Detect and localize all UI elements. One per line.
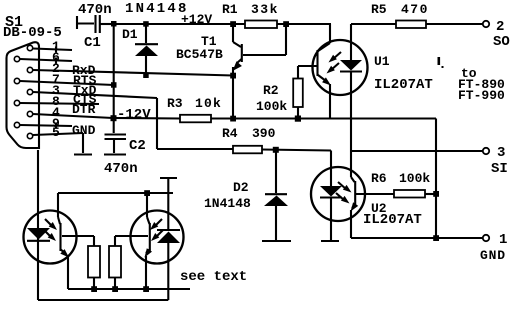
svg-text:IL207AT: IL207AT (363, 212, 422, 228)
junction inset resistor 2 / inner wire (112, 286, 118, 292)
pin 1 tick (55, 47, 57, 53)
svg-text:C1: C1 (84, 35, 101, 51)
junction at C1 / +12V rail (111, 21, 117, 27)
svg-text:IL207AT: IL207AT (374, 77, 433, 93)
wire GND drop to ground (82, 133, 84, 153)
U1 LED light arrows (327, 52, 342, 74)
transistor T1 (233, 24, 242, 76)
junction inset rail / right opto collector (144, 190, 150, 196)
resistor R6 body (394, 190, 425, 198)
inset right opto light arrows (150, 219, 163, 241)
pin 6 wire (20, 59, 72, 61)
optocoupler U1 circle (313, 40, 368, 95)
ground symbol at D2 (262, 240, 291, 242)
inset inner bottom wire (68, 288, 190, 290)
inset left opto LED on vertical wire (27, 228, 50, 241)
terminal 2 circle (483, 21, 489, 27)
wire SI line from U1 LED cathode to terminal 3 (351, 150, 483, 152)
resistor R2 body and leads (293, 66, 303, 119)
wire RxD node down to R3 line (232, 76, 234, 119)
junction T1 collector / rail (230, 21, 236, 27)
junction D1 / RxD (143, 73, 149, 79)
junction T1 emitter / RxD (230, 73, 236, 79)
junction R3 line / T1 vertical (230, 116, 236, 122)
ground symbol at pin 5 (74, 153, 92, 155)
inset left opto phototransistor (58, 193, 69, 289)
pin 9 wire (20, 125, 72, 126)
inset right opto phototransistor (145, 193, 153, 289)
svg-text:R4: R4 (222, 126, 238, 141)
wire +12V rail from C1 node to R1 (114, 23, 245, 25)
junction R6 right / bus (433, 191, 439, 197)
wire GND from pin 5 (33, 133, 83, 135)
inset T-bar terminal (160, 178, 177, 229)
svg-text:3: 3 (497, 145, 505, 161)
wire emitter bus corner down to R6 and GND (435, 119, 437, 239)
U1 phototransistor (318, 43, 332, 118)
svg-text:+12V: +12V (181, 12, 212, 27)
svg-text:100k: 100k (256, 99, 287, 114)
inset left opto base wire to resistor (62, 236, 94, 246)
svg-text:R6: R6 (371, 171, 387, 186)
svg-text:SO: SO (493, 34, 510, 50)
pin 6 tick (55, 58, 57, 64)
U2 LED light arrows (336, 182, 352, 204)
wire CTS from pin 8 (20, 103, 99, 104)
svg-text:390: 390 (252, 126, 276, 141)
U2 LED (anode from R4 line, cathode to ground) (320, 151, 342, 241)
junction inset resistor 1 / inner wire (91, 286, 97, 292)
pin 7 circle (14, 78, 19, 83)
svg-text:FT-990: FT-990 (458, 88, 505, 103)
U2 phototransistor (collector up to SI line, emitter to GND line) (351, 177, 359, 238)
svg-text:DTR: DTR (72, 102, 96, 117)
wire R6 to bus (425, 193, 436, 195)
junction R1 right / T1 base feed (283, 21, 289, 27)
capacitor C1 (77, 15, 114, 33)
pin 8 circle (14, 100, 19, 105)
pin 9 tick (55, 123, 57, 129)
ground symbol at U2 LED (321, 240, 339, 242)
inset resistor 2 body (109, 246, 121, 278)
inset outer bottom wire (38, 299, 168, 301)
wire TxD horizontal from pin 3 (33, 92, 157, 98)
pin 6 circle (14, 56, 19, 61)
wire TxD to R4 (157, 148, 233, 150)
inset left optocoupler circle (24, 211, 77, 264)
inset right opto LED (cathode up to T-bar) (157, 230, 180, 300)
pin 1 wire (33, 49, 72, 51)
wire bus from C1 node down through RTS and DTR to C2 (113, 24, 115, 133)
terminal 3 circle (483, 148, 489, 154)
pin 9 circle (14, 122, 19, 127)
wire RTS from pin 7 to C1 node (20, 81, 114, 85)
wire R1 right to U1 collector corner (277, 23, 331, 25)
svg-text:2: 2 (496, 19, 504, 35)
svg-text:1: 1 (499, 232, 507, 248)
junction R3 line / R2 bottom (295, 116, 301, 122)
svg-text:D2: D2 (233, 180, 249, 195)
svg-text:100k: 100k (399, 171, 430, 186)
junction D2 / R4 line (273, 147, 279, 153)
svg-text:R1: R1 (222, 2, 238, 17)
resistor R4 body (233, 146, 262, 154)
U1 phototransistor collector wire from rail (329, 24, 331, 43)
wire DTR from pin 4 to C2 node (33, 114, 113, 118)
inset left vertical wire from DB9 area (37, 150, 39, 300)
svg-text:SI: SI (491, 161, 508, 177)
svg-text:-12V: -12V (117, 107, 151, 123)
svg-text:33k: 33k (251, 2, 279, 17)
inset resistor 1 body (88, 246, 100, 278)
svg-text:BC547B: BC547B (176, 47, 223, 62)
optocoupler U2 circle (311, 167, 365, 221)
inset top rail wire (58, 192, 173, 194)
junction DTR -12V / bus (111, 115, 117, 121)
diode D1 (cathode up to +12V rail, anode to RxD) (135, 24, 158, 75)
inset resistor 1 bottom lead (93, 278, 95, 290)
svg-text:U1: U1 (374, 54, 390, 69)
svg-text:1N4148: 1N4148 (125, 1, 189, 17)
svg-text:R3: R3 (167, 96, 183, 111)
svg-text:5: 5 (52, 125, 60, 140)
svg-text:see text: see text (180, 269, 247, 285)
junction D1 / +12V rail (143, 21, 149, 27)
pin 1 circle (27, 45, 32, 50)
inset right opto base wire to resistor (115, 236, 148, 246)
capacitor C2 (105, 135, 127, 154)
destination note: to FT-890 FT-990 (458, 66, 505, 103)
U2 base wire to R6 (356, 193, 394, 195)
wire from U1 LED corner to R5 (351, 23, 396, 25)
U1 base wire to R2 (298, 65, 317, 67)
junction RTS / bus (111, 82, 117, 88)
wire DTR node to R3 (113, 117, 181, 120)
pin 5 circle (27, 133, 32, 138)
pin 3 circle (27, 89, 32, 94)
wire RxD from pin 2 to T1 emitter (33, 70, 233, 76)
svg-text:R2: R2 (263, 83, 279, 98)
svg-text:C2: C2 (129, 138, 146, 154)
wire R1 right down to base (285, 24, 287, 55)
wire T1 base to R1 right (243, 54, 286, 56)
svg-text:GND: GND (480, 248, 506, 263)
U1 LED (anode from R5 line, cathode down to SI line) (340, 24, 362, 177)
svg-text:D1: D1 (122, 27, 138, 42)
resistor R1 body (245, 21, 277, 29)
svg-text:R5: R5 (371, 2, 387, 17)
pin 2 circle (27, 67, 32, 72)
svg-text:10k: 10k (195, 96, 222, 111)
wire TxD vertical drop (156, 98, 158, 149)
wire R3 to emitter bus (211, 117, 436, 119)
resistor R3 body (180, 115, 211, 123)
svg-text:470: 470 (401, 2, 429, 17)
wire R5 to terminal 2 (426, 23, 483, 25)
junction inset right emitter / inner wire (143, 286, 149, 292)
ground symbol at C2 (104, 153, 126, 155)
inset right optocoupler circle (131, 211, 184, 264)
wire R4 to U2 LED corner (262, 150, 331, 151)
wire GND line from U2 emitter to terminal 1 (351, 237, 483, 239)
connector S1 DB-9 shell (7, 42, 40, 148)
resistor R5 body (396, 21, 426, 29)
pin 4 circle (27, 111, 32, 116)
inset left opto light arrows (44, 219, 57, 241)
svg-text:470n: 470n (104, 161, 138, 177)
svg-text:1N4148: 1N4148 (204, 196, 251, 211)
diode D2 (cathode up to R4 line) (264, 150, 288, 240)
inset resistor 2 bottom lead (114, 278, 116, 290)
junction GND line / bus (433, 235, 439, 241)
terminal 1 circle (483, 235, 489, 241)
scan mark (438, 57, 444, 68)
